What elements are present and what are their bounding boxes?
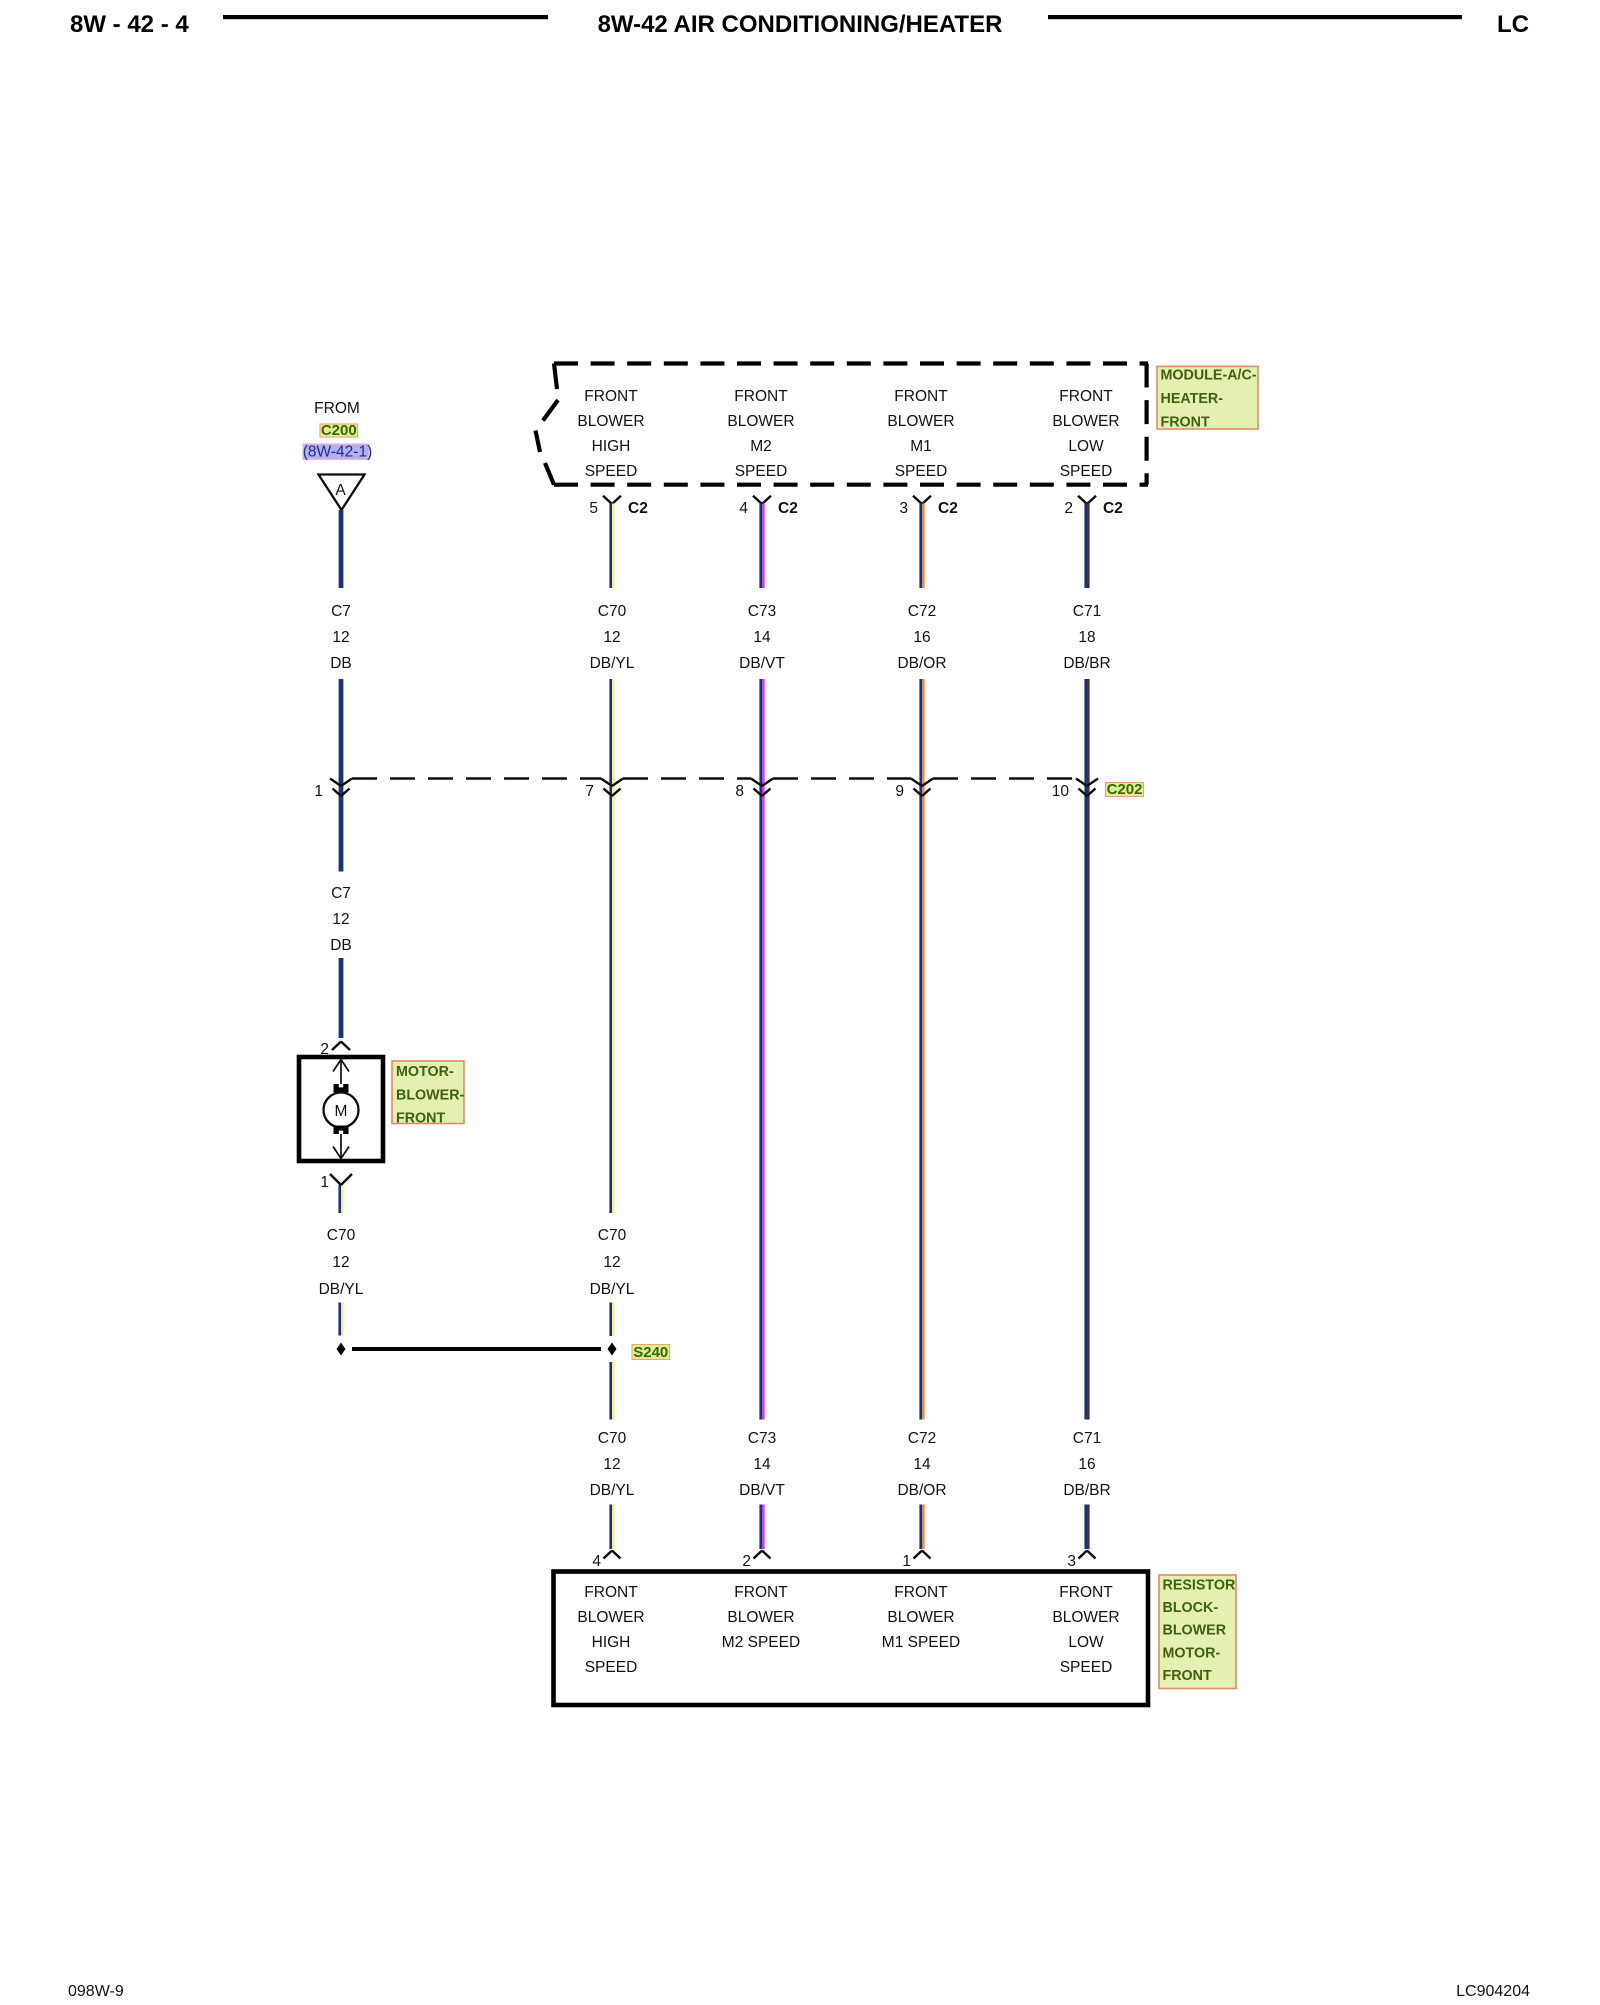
motor circle M [324, 1093, 359, 1128]
svg-text:DB/YL: DB/YL [590, 1281, 635, 1298]
motor internal lead bottom arrow [333, 1134, 349, 1159]
resistor block text FRONT BLOWER M1 SPEED [882, 1584, 960, 1651]
wire C73 14 DB/VT through C202 [759, 679, 762, 1420]
connector C202 pin 9 [895, 779, 933, 801]
svg-text:C2: C2 [778, 500, 798, 517]
svg-text:12: 12 [332, 911, 349, 928]
svg-text:HEATER-: HEATER- [1161, 391, 1224, 407]
svg-text:FRONT: FRONT [894, 1584, 948, 1601]
svg-text:A: A [335, 482, 346, 499]
label RESISTOR BLOCK-BLOWER MOTOR-FRONT [1159, 1575, 1236, 1689]
svg-text:C72: C72 [908, 603, 936, 620]
module box right edge [1144, 364, 1148, 485]
svg-text:14: 14 [753, 1456, 771, 1473]
svg-text:C70: C70 [598, 603, 627, 620]
connector tag C202 [1106, 781, 1144, 798]
svg-text:C71: C71 [1073, 603, 1101, 620]
wire C73 14 DB/VT to resistor block [759, 1505, 762, 1550]
svg-text:1: 1 [320, 1174, 329, 1191]
splice dot right S240 [608, 1343, 617, 1356]
svg-text:C2: C2 [1103, 500, 1123, 517]
wire C71 18 DB/BR from C2 [1084, 504, 1087, 589]
wire C7 12 DB through C202 [339, 679, 344, 872]
svg-text:DB: DB [330, 655, 352, 672]
module A/C-heater-front dashed box top edge [554, 361, 1148, 365]
svg-text:7: 7 [585, 783, 594, 800]
wire C71 16 DB/BR to resistor block [1084, 1505, 1087, 1550]
wire C72 16 DB/OR through C202 [919, 679, 922, 1420]
module box jagged left edge [536, 364, 559, 485]
svg-text:12: 12 [332, 629, 349, 646]
svg-text:8W-42 AIR CONDITIONING/HEATER: 8W-42 AIR CONDITIONING/HEATER [598, 11, 1003, 38]
motor pin 1 [320, 1174, 352, 1191]
svg-text:1: 1 [902, 1553, 911, 1570]
motor M blower-front box [299, 1057, 383, 1161]
connector C2 pin 4 [739, 496, 797, 517]
svg-text:HIGH: HIGH [592, 438, 631, 455]
svg-text:FROM: FROM [314, 400, 360, 417]
svg-text:3: 3 [899, 500, 908, 517]
svg-text:MOTOR-: MOTOR- [396, 1064, 454, 1080]
wire label C70 12 DB/YL (motor branch) [319, 1227, 364, 1298]
resistor block pin 4 [592, 1551, 620, 1571]
svg-text:18: 18 [1078, 629, 1095, 646]
wire C7 12 DB to motor [339, 958, 344, 1038]
svg-text:DB/YL: DB/YL [590, 1482, 635, 1499]
module text FRONT BLOWER M1 SPEED [887, 388, 954, 480]
svg-text:FRONT: FRONT [1163, 1668, 1213, 1684]
wire C71 18 DB/BR through C202 [1084, 679, 1087, 1420]
svg-text:C2: C2 [938, 500, 958, 517]
svg-text:2: 2 [1064, 500, 1073, 517]
svg-text:C72: C72 [908, 1430, 936, 1447]
svg-text:MODULE-A/C-: MODULE-A/C- [1161, 367, 1257, 383]
svg-text:4: 4 [739, 500, 748, 517]
svg-text:BLOWER: BLOWER [727, 413, 794, 430]
wire label C70 12 DB/YL (col2) [590, 1227, 635, 1298]
connector C2 pin 2 [1064, 496, 1122, 517]
connector C202 pin 1 [314, 779, 352, 801]
svg-text:14: 14 [913, 1456, 931, 1473]
svg-text:(8W-42-1): (8W-42-1) [303, 444, 372, 461]
module text FRONT BLOWER M2 SPEED [727, 388, 794, 480]
connector C202 dashed line [352, 777, 1076, 779]
svg-text:8: 8 [735, 783, 744, 800]
svg-text:10: 10 [1052, 783, 1070, 800]
svg-text:FRONT: FRONT [734, 388, 788, 405]
resistor block pin 2 [742, 1551, 770, 1571]
connector C202 pin 8 [735, 779, 773, 801]
motor commutator top block [334, 1084, 349, 1093]
splice tag S240 [632, 1344, 670, 1361]
wire C70 12 DB/YL through C202 [609, 679, 612, 1213]
svg-text:12: 12 [603, 629, 620, 646]
svg-text:DB/BR: DB/BR [1063, 655, 1110, 672]
wire label C71 18 DB/BR [1063, 603, 1110, 672]
wire label C71 16 DB/BR (bottom) [1063, 1430, 1110, 1499]
svg-text:DB/YL: DB/YL [319, 1281, 364, 1298]
svg-text:C73: C73 [748, 1430, 776, 1447]
svg-text:LOW: LOW [1068, 1634, 1104, 1651]
svg-text:C7: C7 [331, 885, 351, 902]
svg-text:SPEED: SPEED [895, 463, 948, 480]
wire C70 12 DB/YL to resistor block [609, 1505, 612, 1550]
svg-text:BLOWER: BLOWER [887, 413, 954, 430]
wire C72 16 DB/OR from C2 [919, 504, 922, 589]
label MODULE-A/C-HEATER-FRONT [1157, 366, 1258, 430]
wire C73 14 DB/VT from C2 [759, 504, 762, 589]
splice dot left [337, 1343, 346, 1356]
connector C2 pin 3 [899, 496, 957, 517]
svg-text:M1 SPEED: M1 SPEED [882, 1634, 960, 1651]
reference tag (8W-42-1) [303, 444, 372, 461]
svg-text:DB/VT: DB/VT [739, 1482, 785, 1499]
resistor block text FRONT BLOWER LOW SPEED [1052, 1584, 1119, 1676]
label MOTOR-BLOWER-FRONT [392, 1061, 465, 1127]
svg-text:FRONT: FRONT [584, 1584, 638, 1601]
svg-text:C202: C202 [1107, 781, 1143, 798]
svg-text:C200: C200 [321, 422, 357, 439]
svg-text:C2: C2 [628, 500, 648, 517]
module box bottom edge [554, 483, 1148, 487]
svg-text:HIGH: HIGH [592, 1634, 631, 1651]
svg-text:3: 3 [1067, 1553, 1076, 1570]
resistor block text FRONT BLOWER HIGH SPEED [577, 1584, 644, 1676]
connector C2 pin 5 [589, 496, 647, 517]
svg-text:1: 1 [314, 783, 323, 800]
svg-text:DB/VT: DB/VT [739, 655, 785, 672]
header left rule [223, 15, 548, 19]
svg-text:BLOWER-: BLOWER- [396, 1087, 465, 1103]
svg-text:BLOCK-: BLOCK- [1163, 1600, 1219, 1616]
svg-text:RESISTOR: RESISTOR [1163, 1578, 1237, 1594]
header right rule [1048, 15, 1462, 19]
connector tag C200 [320, 422, 358, 439]
svg-text:12: 12 [603, 1254, 620, 1271]
svg-text:SPEED: SPEED [735, 463, 788, 480]
svg-text:BLOWER: BLOWER [577, 1609, 644, 1626]
svg-text:FRONT: FRONT [584, 388, 638, 405]
svg-text:C73: C73 [748, 603, 776, 620]
resistor block pin 1 [902, 1551, 930, 1571]
svg-text:SPEED: SPEED [585, 463, 638, 480]
svg-text:M: M [335, 1103, 348, 1120]
wire C70 12 DB/YL col2 above splice [609, 1303, 612, 1337]
svg-text:M1: M1 [910, 438, 932, 455]
svg-text:LC: LC [1497, 11, 1529, 38]
svg-text:5: 5 [589, 500, 598, 517]
svg-text:BLOWER: BLOWER [1052, 413, 1119, 430]
svg-text:FRONT: FRONT [1161, 415, 1211, 431]
svg-text:FRONT: FRONT [1059, 388, 1113, 405]
svg-text:14: 14 [753, 629, 771, 646]
svg-text:FRONT: FRONT [734, 1584, 788, 1601]
motor pin 2 [320, 1041, 350, 1058]
svg-text:098W-9: 098W-9 [68, 1983, 124, 2000]
svg-text:LC904204: LC904204 [1456, 1983, 1530, 2000]
wire label C7 12 DB [330, 603, 352, 672]
svg-text:M2 SPEED: M2 SPEED [722, 1634, 800, 1651]
svg-text:C70: C70 [598, 1430, 627, 1447]
svg-text:LOW: LOW [1068, 438, 1104, 455]
wire label C73 14 DB/VT (bottom) [739, 1430, 785, 1499]
wire C7 12 DB from triangle A [339, 510, 344, 588]
resistor block pin 3 [1067, 1551, 1095, 1571]
svg-text:DB/OR: DB/OR [897, 1482, 946, 1499]
module text FRONT BLOWER HIGH SPEED [577, 388, 644, 480]
wire label C72 16 DB/OR [897, 603, 946, 672]
svg-text:BLOWER: BLOWER [577, 413, 644, 430]
connector C202 pin 7 [585, 779, 623, 801]
svg-text:BLOWER: BLOWER [727, 1609, 794, 1626]
resistor block text FRONT BLOWER M2 SPEED [722, 1584, 800, 1651]
wire label C72 14 DB/OR (bottom) [897, 1430, 946, 1499]
off-page connector triangle A [319, 475, 365, 511]
svg-text:9: 9 [895, 783, 904, 800]
motor commutator bottom block [334, 1126, 349, 1135]
svg-text:SPEED: SPEED [1060, 1659, 1113, 1676]
wire label C70 12 DB/YL (bottom) [590, 1430, 635, 1499]
wire C70 12 DB/YL col2 below splice [609, 1362, 612, 1420]
wire label C73 14 DB/VT [739, 603, 785, 672]
wire C72 14 DB/OR to resistor block [919, 1505, 922, 1550]
svg-text:DB/YL: DB/YL [590, 655, 635, 672]
wire label C7 12 DB (second) [330, 885, 352, 954]
svg-text:C70: C70 [598, 1227, 627, 1244]
svg-text:12: 12 [332, 1254, 349, 1271]
svg-text:8W - 42 - 4: 8W - 42 - 4 [70, 11, 189, 38]
svg-text:FRONT: FRONT [396, 1111, 446, 1127]
wire C70 12 DB/YL from C2 [609, 504, 612, 589]
svg-text:C71: C71 [1073, 1430, 1101, 1447]
svg-text:2: 2 [742, 1553, 751, 1570]
splice S240 horizontal wire [352, 1347, 601, 1351]
module text FRONT BLOWER LOW SPEED [1052, 388, 1119, 480]
connector C202 pin 10 [1052, 779, 1098, 801]
svg-text:FRONT: FRONT [1059, 1584, 1113, 1601]
svg-text:FRONT: FRONT [894, 388, 948, 405]
svg-text:MOTOR-: MOTOR- [1163, 1645, 1221, 1661]
motor internal lead top arrow [333, 1060, 349, 1085]
svg-text:BLOWER: BLOWER [1052, 1609, 1119, 1626]
svg-text:16: 16 [1078, 1456, 1095, 1473]
svg-text:SPEED: SPEED [1060, 463, 1113, 480]
svg-text:DB/OR: DB/OR [897, 655, 946, 672]
wire C70 12 DB/YL to splice [338, 1303, 341, 1336]
svg-text:C7: C7 [331, 603, 351, 620]
svg-text:DB: DB [330, 937, 352, 954]
svg-text:BLOWER: BLOWER [887, 1609, 954, 1626]
svg-text:S240: S240 [633, 1344, 668, 1361]
svg-text:16: 16 [913, 629, 930, 646]
svg-text:BLOWER: BLOWER [1163, 1623, 1227, 1639]
svg-text:4: 4 [592, 1553, 601, 1570]
resistor block box [554, 1572, 1149, 1706]
svg-text:M2: M2 [750, 438, 772, 455]
svg-text:C70: C70 [327, 1227, 356, 1244]
wire label C70 12 DB/YL [590, 603, 635, 672]
svg-text:SPEED: SPEED [585, 1659, 638, 1676]
wire C70 12 DB/YL from motor [338, 1185, 341, 1213]
svg-text:DB/BR: DB/BR [1063, 1482, 1110, 1499]
svg-text:12: 12 [603, 1456, 620, 1473]
